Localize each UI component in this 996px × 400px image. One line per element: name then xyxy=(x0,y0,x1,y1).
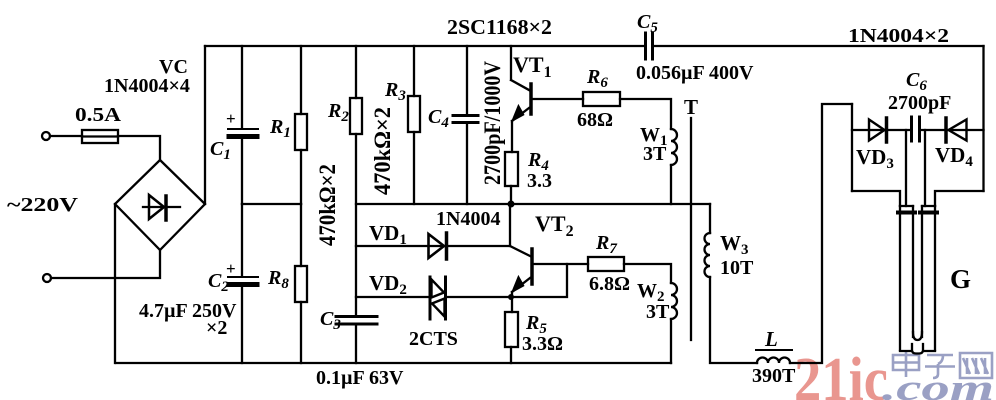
diode VD4 xyxy=(946,118,967,142)
svg-text:VD3: VD3 xyxy=(856,145,894,172)
wire R6 to W1 xyxy=(620,99,671,129)
inductor L 390T xyxy=(757,358,790,364)
bridge rectifier VC xyxy=(115,160,205,250)
label R2 xyxy=(327,100,349,125)
svg-text:G: G xyxy=(950,264,971,294)
svg-text:VD4: VD4 xyxy=(935,143,973,170)
label 0.1uF 63V xyxy=(316,367,404,389)
svg-text:R3: R3 xyxy=(384,79,406,104)
resistor R8 xyxy=(295,266,307,302)
wire R7 to W2 xyxy=(624,264,671,283)
svg-text:6.8Ω: 6.8Ω xyxy=(589,273,630,295)
svg-text:3.3: 3.3 xyxy=(527,170,552,192)
wire VT1 base to R6 xyxy=(533,98,583,100)
label W2 3T xyxy=(637,280,670,323)
wire mid to R8 xyxy=(300,204,302,266)
svg-text:0.5A: 0.5A xyxy=(75,104,122,126)
svg-text:2SC1168×2: 2SC1168×2 xyxy=(447,15,552,39)
svg-text:L: L xyxy=(764,327,778,351)
watermark 21ic xyxy=(794,346,888,400)
diac VD2 2CTS xyxy=(430,277,446,319)
svg-text:C5: C5 xyxy=(637,11,658,36)
winding W3 10T xyxy=(705,233,711,277)
wire mid bus to W3 xyxy=(709,204,711,233)
svg-text:1N4004×4: 1N4004×4 xyxy=(104,75,190,97)
diode VD3 xyxy=(869,118,887,142)
wire R2 down through VD taps to C3 xyxy=(355,134,357,315)
svg-text:C1: C1 xyxy=(210,138,231,163)
svg-text:470kΩ×2: 470kΩ×2 xyxy=(370,107,395,195)
svg-text:+: + xyxy=(226,259,236,278)
label L 390T xyxy=(752,327,796,387)
svg-text:0.1µF 63V: 0.1µF 63V xyxy=(316,367,404,389)
terminal J1 xyxy=(42,132,50,140)
svg-text:×2: ×2 xyxy=(206,317,227,339)
label C1 xyxy=(210,138,231,163)
svg-text:~220V: ~220V xyxy=(7,194,79,216)
label plus C1 xyxy=(226,109,236,128)
wire C2 column top xyxy=(241,204,243,275)
fuse FU 0.5A xyxy=(82,130,118,143)
resistor R7 6.8ohm xyxy=(588,257,624,271)
label VD1 xyxy=(369,221,407,248)
svg-text:VD1: VD1 xyxy=(369,221,407,248)
wire C4 column top xyxy=(466,46,468,113)
lamp U bend xyxy=(900,332,935,354)
label 1N4004x4 xyxy=(104,75,190,97)
wire lamp left node column xyxy=(851,104,853,191)
svg-text:VT2: VT2 xyxy=(535,211,574,240)
wire drop to right filament inner pin xyxy=(924,130,926,206)
capacitor C3 xyxy=(336,317,377,325)
label G xyxy=(950,264,971,294)
label 470kOhm x2 (R2 R3) xyxy=(370,107,395,195)
capacitor C1 xyxy=(228,129,258,137)
wire drop to left filament inner pin xyxy=(905,130,907,206)
wire R8 to bottom bus xyxy=(300,302,302,363)
svg-text:R8: R8 xyxy=(267,267,289,292)
wire C1 to mid node xyxy=(241,139,243,204)
label VD3 xyxy=(856,145,894,172)
label VC xyxy=(159,56,188,78)
label R8 xyxy=(267,267,289,292)
svg-text:10T: 10T xyxy=(720,257,754,279)
label C3 xyxy=(320,308,341,333)
terminal J2 xyxy=(43,274,51,282)
wire J2 to bridge bottom xyxy=(51,250,160,278)
label plus C2 xyxy=(226,259,236,278)
resistor R6 68ohm xyxy=(583,92,620,106)
capacitor C5 xyxy=(646,33,653,59)
label 2SC1168x2 xyxy=(447,15,552,39)
resistor R2 xyxy=(350,98,362,134)
svg-text:21ic: 21ic xyxy=(794,346,888,400)
resistor R1 xyxy=(295,114,307,150)
svg-text:VT1: VT1 xyxy=(513,52,552,81)
wire C6 to VD4 xyxy=(921,129,984,131)
label 4.7uF 250V x2 xyxy=(139,300,237,339)
label VT1 xyxy=(513,52,552,81)
label 2CTS xyxy=(409,328,458,350)
label 0.056uF 400V xyxy=(636,62,754,84)
svg-text:VD2: VD2 xyxy=(369,271,407,298)
label R5 3.3ohm xyxy=(522,312,563,355)
svg-text:390T: 390T xyxy=(752,365,796,387)
wire C4 to mid bus xyxy=(466,125,468,204)
svg-text:3.3Ω: 3.3Ω xyxy=(522,333,563,355)
svg-text:C4: C4 xyxy=(428,106,449,131)
wire bottom bus xyxy=(116,362,671,364)
label R4 3.3 xyxy=(527,149,552,192)
transistor VT1 xyxy=(511,46,531,152)
wire mid bus B xyxy=(356,203,710,205)
wire VD2 to VT2 base column xyxy=(447,264,567,297)
wire R1 column top xyxy=(300,46,302,114)
node dot R4/VT2/mid-bus xyxy=(508,201,515,208)
wire L to lamp left lead xyxy=(790,104,852,363)
svg-text:R6: R6 xyxy=(586,66,608,91)
wire fuse to bridge top xyxy=(118,136,160,160)
label R6 68ohm xyxy=(577,66,613,131)
label 470kOhm x2 (R1 R8) xyxy=(315,164,340,246)
watermark dianziwang glyphs xyxy=(893,351,992,378)
wire R1 to mid xyxy=(300,150,302,204)
wire R4 to mid node xyxy=(510,186,512,204)
resistor R4 3.3 xyxy=(505,152,518,186)
svg-text:1N4004: 1N4004 xyxy=(436,208,500,230)
svg-text:2700pF/1000V: 2700pF/1000V xyxy=(480,61,505,185)
wire R3 column top xyxy=(413,46,415,96)
lamp tube G leg walls xyxy=(900,206,935,350)
label W3 10T xyxy=(720,231,754,279)
svg-text:W3: W3 xyxy=(720,231,749,258)
wire R2 column top xyxy=(355,46,357,98)
wire top bus right of C5 xyxy=(654,45,984,47)
winding W2 3T xyxy=(671,283,677,319)
svg-text:0.056µF 400V: 0.056µF 400V xyxy=(636,62,754,84)
label C5 xyxy=(637,11,658,36)
svg-text:R2: R2 xyxy=(327,100,349,125)
label R1 xyxy=(269,116,291,141)
wire C1 column top xyxy=(241,46,243,127)
svg-text:2700pF: 2700pF xyxy=(888,92,951,114)
wire bridge right corner to top bus xyxy=(204,46,206,204)
node dot emitter/diac xyxy=(508,294,514,300)
svg-text:C3: C3 xyxy=(320,308,341,333)
wire VD1 branch xyxy=(356,245,510,247)
label 1N4004 (VD1) xyxy=(436,208,500,230)
label VD4 xyxy=(935,143,973,170)
capacitor C6 2700pF xyxy=(912,117,920,141)
wire W3 to bottom segment xyxy=(710,277,757,363)
wire bridge left corner to bottom bus xyxy=(114,204,116,363)
diode VD1 1N4004 xyxy=(429,233,447,259)
svg-text:R1: R1 xyxy=(269,116,291,141)
wire to left filament outer pin xyxy=(852,191,900,206)
wire right drop from top bus xyxy=(982,46,984,191)
svg-text:470kΩ×2: 470kΩ×2 xyxy=(315,164,340,246)
wire R3 to mid bus xyxy=(413,132,415,204)
watermark .com xyxy=(882,368,994,400)
wire W1 to mid bus xyxy=(670,165,672,204)
label 2700pF/1000V xyxy=(480,61,505,185)
label R3 xyxy=(384,79,406,104)
label T xyxy=(684,95,698,119)
wire top bus xyxy=(205,45,644,47)
svg-text:T: T xyxy=(684,95,698,119)
svg-text:1N4004×2: 1N4004×2 xyxy=(848,25,949,47)
wire C2 to bottom bus xyxy=(241,288,243,363)
label 1N4004x2 xyxy=(848,25,949,47)
winding W1 3T xyxy=(671,129,677,165)
wire R5 to bottom bus xyxy=(510,347,512,363)
transformer core T xyxy=(690,118,692,340)
svg-text:3T: 3T xyxy=(643,143,667,165)
transistor VT2 xyxy=(510,204,532,312)
wire mid bus A xyxy=(242,203,301,205)
label C4 xyxy=(428,106,449,131)
label C2 xyxy=(208,270,229,295)
wire VD3 anode xyxy=(852,129,911,131)
svg-text:+: + xyxy=(226,109,236,128)
resistor R3 xyxy=(408,96,420,132)
svg-text:2CTS: 2CTS xyxy=(409,328,458,350)
svg-text:C6: C6 xyxy=(906,69,927,94)
svg-text:68Ω: 68Ω xyxy=(577,109,613,131)
lamp filaments xyxy=(898,211,937,215)
wire to right filament outer pin xyxy=(935,191,984,206)
label ~220V xyxy=(7,194,79,216)
label C6 2700pF xyxy=(888,69,951,114)
label W1 3T xyxy=(640,124,668,165)
label VD2 xyxy=(369,271,407,298)
wire VD2 branch left xyxy=(356,296,428,298)
resistor R5 3.3ohm xyxy=(505,312,518,347)
svg-text:R7: R7 xyxy=(595,232,617,257)
label 0.5A xyxy=(75,104,122,126)
wire W2 to bottom bus xyxy=(670,319,672,363)
capacitor C2 xyxy=(228,277,258,285)
svg-text:3T: 3T xyxy=(646,301,670,323)
label VT2 xyxy=(535,211,574,240)
wire C3 to bottom bus xyxy=(355,326,357,363)
wire VT2 base to R7 xyxy=(534,263,588,265)
capacitor C4 xyxy=(453,116,478,123)
wire J1 to fuse xyxy=(50,135,82,137)
label R7 6.8ohm xyxy=(589,232,630,295)
